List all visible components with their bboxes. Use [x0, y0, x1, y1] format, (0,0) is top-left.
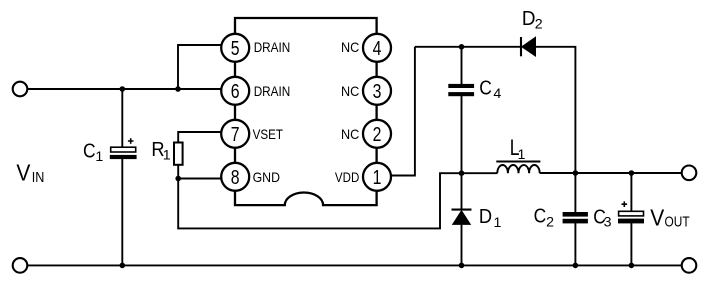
pin label DRAIN 5 — [254, 39, 291, 55]
wire C4 top lead — [461, 47, 463, 85]
wire C4 bottom lead — [461, 96, 463, 173]
wire C1 bottom lead — [121, 159, 123, 266]
op-amp U1 body — [235, 18, 377, 205]
wire pin1 VDD lead — [392, 47, 415, 176]
terminal VOUT- — [682, 258, 697, 273]
wire pin7 to R1 — [178, 132, 222, 143]
label VOUT — [650, 204, 689, 230]
svg-text:5: 5 — [231, 38, 240, 60]
wire pin5 branch — [178, 45, 222, 89]
label C2 — [534, 205, 555, 231]
resistor R1 — [174, 143, 183, 165]
label R1 — [151, 138, 170, 164]
svg-text:C: C — [534, 205, 547, 228]
label C4 — [479, 76, 501, 102]
svg-text:GND: GND — [253, 169, 280, 185]
svg-text:D: D — [479, 205, 492, 228]
wire C3 bottom lead — [630, 223, 632, 265]
wire bottom rail — [27, 264, 681, 266]
node junction output L1 C2 — [573, 170, 579, 176]
terminal VIN- — [13, 258, 28, 273]
terminal VIN+ — [13, 82, 28, 97]
pin 3 — [363, 77, 391, 105]
wire top rail left — [415, 46, 522, 48]
inductor L1 — [496, 162, 540, 174]
node junction pin5 branch — [175, 86, 181, 92]
pin 7 — [221, 120, 249, 148]
svg-text:3: 3 — [373, 81, 382, 103]
node junction bottom C3 — [629, 263, 635, 269]
wire VIN+ rail — [27, 88, 222, 90]
svg-text:6: 6 — [231, 81, 240, 103]
label C3 — [593, 205, 611, 230]
wire C2 top lead — [574, 173, 576, 213]
svg-text:4: 4 — [373, 38, 382, 60]
capacitor C2 — [563, 212, 588, 223]
wire top rail right — [535, 47, 575, 173]
pin label DRAIN 6 — [254, 83, 291, 99]
pin 8 — [221, 163, 249, 191]
svg-text:1: 1 — [163, 148, 171, 164]
node junction output C3 — [629, 170, 635, 176]
wire C2 bottom lead — [574, 223, 576, 265]
svg-text:1: 1 — [518, 147, 526, 163]
svg-text:V: V — [650, 204, 664, 230]
terminal VOUT+ — [682, 166, 697, 181]
pin label GND — [253, 169, 280, 185]
wire R1 bottom to node — [177, 165, 179, 179]
node junction bottom C1 — [120, 263, 126, 269]
wire C1 top lead — [121, 89, 123, 148]
capacitor C1 — [110, 138, 137, 159]
node junction top rail C4 — [459, 44, 465, 50]
svg-text:3: 3 — [604, 215, 612, 231]
capacitor C4 — [448, 84, 474, 96]
svg-text:2: 2 — [373, 124, 382, 146]
pin label VSET — [253, 126, 284, 142]
wire C3 top lead — [630, 173, 632, 212]
label C1 — [83, 139, 103, 164]
svg-text:C: C — [83, 139, 96, 162]
pin 1 — [363, 163, 391, 191]
wire D1 top lead — [461, 173, 463, 209]
node junction VIN C1 — [120, 86, 126, 92]
svg-text:V: V — [16, 160, 30, 186]
svg-text:VSET: VSET — [253, 126, 284, 142]
svg-text:D: D — [522, 7, 536, 30]
pin label NC 4 — [341, 39, 359, 55]
diode D1 — [452, 210, 472, 225]
svg-text:IN: IN — [32, 170, 45, 186]
node junction bottom D1 — [459, 263, 465, 269]
pin 6 — [221, 77, 249, 105]
svg-text:NC: NC — [341, 83, 359, 99]
svg-text:C: C — [479, 76, 492, 99]
node junction switch node — [459, 170, 465, 176]
label D2 — [522, 7, 543, 32]
svg-text:1: 1 — [373, 167, 382, 189]
pin 5 — [221, 34, 249, 62]
pin 2 — [363, 120, 391, 148]
diode D2 — [521, 37, 536, 56]
wire node to pin8 — [178, 178, 222, 180]
svg-text:8: 8 — [231, 167, 240, 189]
svg-text:7: 7 — [231, 124, 240, 146]
svg-text:2: 2 — [535, 17, 543, 33]
svg-text:1: 1 — [494, 215, 502, 231]
wire D1 bottom lead — [461, 225, 463, 266]
label L1 — [510, 135, 526, 163]
svg-text:NC: NC — [341, 126, 359, 142]
label D1 — [479, 205, 502, 231]
svg-text:NC: NC — [341, 39, 359, 55]
capacitor C3 — [618, 201, 644, 223]
node junction bottom C2 — [573, 263, 579, 269]
label VIN — [16, 160, 44, 187]
node junction R1 pin8 — [175, 176, 181, 182]
pin label NC 2 — [341, 126, 359, 142]
pin label NC 3 — [341, 83, 359, 99]
svg-text:DRAIN: DRAIN — [254, 83, 291, 99]
svg-text:1: 1 — [95, 149, 103, 165]
pin label VDD — [335, 169, 359, 185]
svg-text:VDD: VDD — [335, 169, 359, 185]
svg-text:4: 4 — [493, 86, 501, 102]
pin 4 — [363, 34, 391, 62]
wire GND trace — [178, 173, 497, 228]
svg-text:OUT: OUT — [665, 215, 690, 231]
svg-text:2: 2 — [546, 214, 554, 230]
svg-text:DRAIN: DRAIN — [254, 39, 291, 55]
wire output line — [540, 172, 682, 174]
